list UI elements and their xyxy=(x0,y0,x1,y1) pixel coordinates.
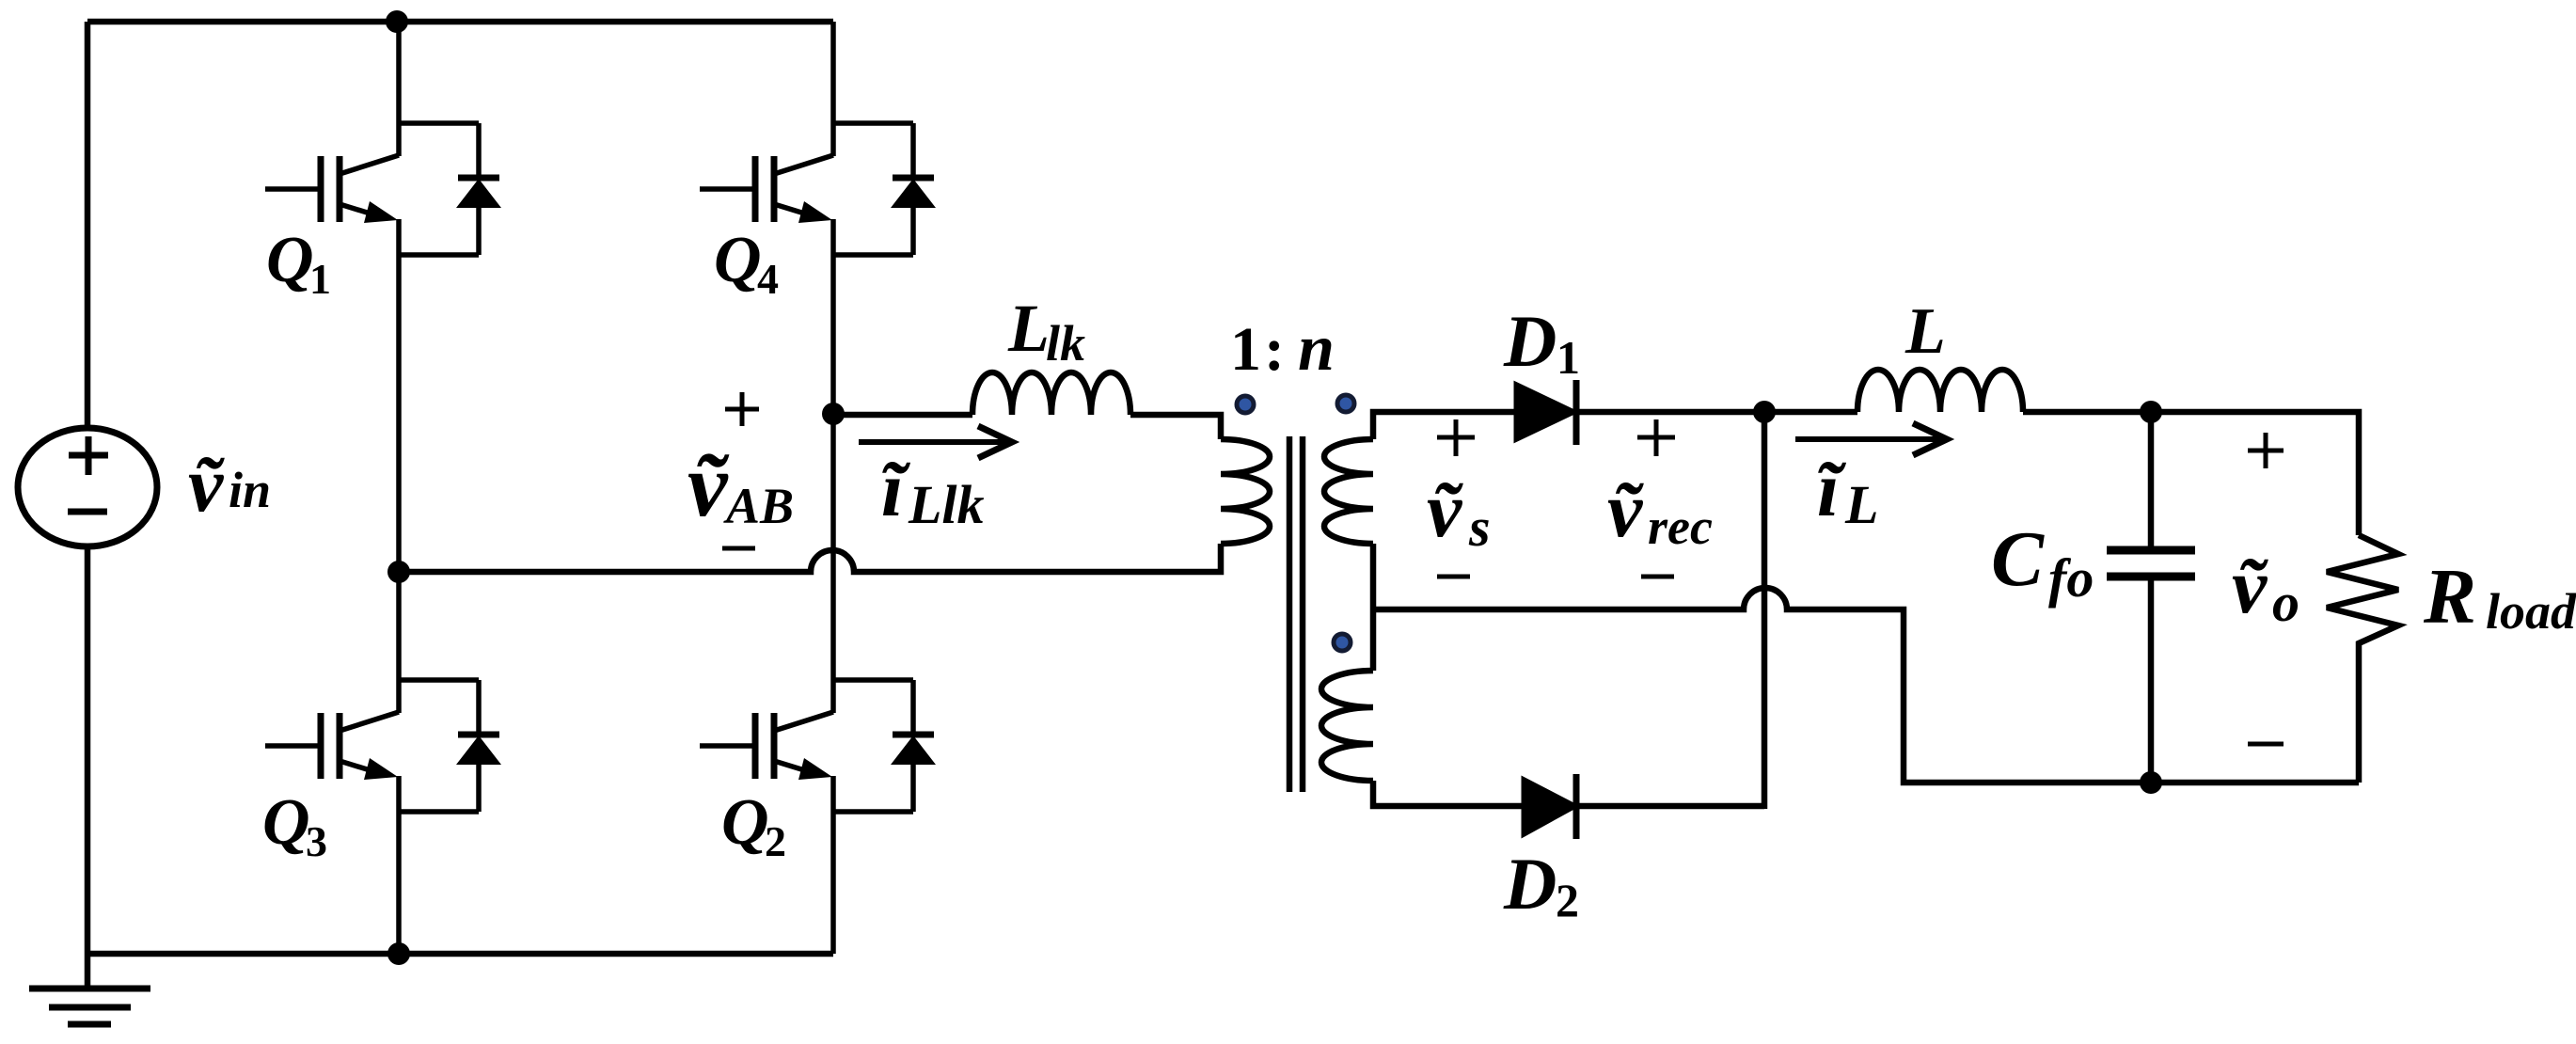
junction cap top xyxy=(2140,401,2162,423)
svg-text:2: 2 xyxy=(765,817,786,865)
secondary top winding xyxy=(1324,439,1373,544)
ground xyxy=(29,989,150,1024)
junction cap bottom xyxy=(2140,771,2162,794)
svg-text::: : xyxy=(1264,315,1285,384)
arrow iL xyxy=(1795,436,1943,442)
transistor Q1 xyxy=(265,22,501,572)
arrow iLlk xyxy=(859,439,1008,445)
inductor L xyxy=(1857,370,2023,412)
wire D1 to node xyxy=(1579,409,1857,416)
svg-text:lk: lk xyxy=(1046,315,1085,372)
svg-text:load: load xyxy=(2486,583,2576,640)
svg-text:3: 3 xyxy=(306,817,327,865)
wire left rail lower xyxy=(85,546,91,987)
wire center tap to output bottom with hop xyxy=(1373,588,2359,783)
svg-text:ṽ: ṽ xyxy=(687,435,730,535)
label minus under vAB xyxy=(722,546,755,551)
node A wire to primary bottom with hop xyxy=(399,544,1221,572)
svg-text:1: 1 xyxy=(1557,331,1580,384)
secondary bottom polarity dot xyxy=(1334,634,1351,651)
wire D2 to vertical xyxy=(1577,803,1764,810)
label vo plus xyxy=(2248,433,2284,468)
transistor Q4 xyxy=(700,22,936,414)
svg-text:ṽ: ṽ xyxy=(188,441,225,529)
capacitor Cfo xyxy=(2148,412,2155,550)
node B label plus xyxy=(725,392,759,426)
transistor Q2 xyxy=(700,414,936,954)
svg-text:1: 1 xyxy=(309,255,331,303)
svg-text:4: 4 xyxy=(757,255,779,303)
wire node B to Llk xyxy=(833,412,972,419)
primary polarity dot xyxy=(1237,396,1254,413)
svg-text:AB: AB xyxy=(723,478,794,534)
transformer primary winding xyxy=(1221,439,1270,544)
svg-text:Q: Q xyxy=(262,786,310,859)
wire secondary top stub up xyxy=(1373,412,1514,439)
svg-text:fo: fo xyxy=(2048,547,2094,609)
secondary bottom winding xyxy=(1321,671,1373,781)
svg-text:Q: Q xyxy=(266,224,314,296)
svg-text:L: L xyxy=(1844,474,1878,535)
svg-text:ṽ: ṽ xyxy=(2232,543,2268,630)
svg-text:s: s xyxy=(1468,497,1491,558)
wire secondary center tap vertical xyxy=(1370,544,1377,671)
junction node A xyxy=(387,561,410,583)
diode D2 xyxy=(1523,778,1577,836)
svg-text:Llk: Llk xyxy=(908,474,985,535)
svg-text:n: n xyxy=(1298,312,1335,385)
inductor Llk xyxy=(972,372,1130,415)
label vs plus xyxy=(1437,419,1475,456)
svg-text:2: 2 xyxy=(1556,874,1579,926)
svg-text:C: C xyxy=(1991,515,2045,603)
wire Llk to primary top xyxy=(1130,415,1221,439)
svg-text:Q: Q xyxy=(721,786,769,859)
label vrec plus xyxy=(1637,419,1675,456)
junction node B xyxy=(822,403,845,425)
diode D1 xyxy=(1515,383,1576,441)
wire L to resistor top xyxy=(2023,412,2359,535)
svg-text:Q: Q xyxy=(714,224,762,296)
svg-text:R: R xyxy=(2423,553,2476,641)
junction rectifier output xyxy=(1753,401,1776,423)
wire rectifier vertical xyxy=(1762,412,1768,809)
svg-text:ṽ: ṽ xyxy=(1427,467,1463,554)
wire secondary bottom stub xyxy=(1373,781,1523,806)
transistor Q3 xyxy=(265,572,501,954)
wire bottom rail xyxy=(87,951,833,957)
transformer core xyxy=(1287,436,1293,792)
voltage source vin xyxy=(18,428,157,546)
svg-text:D: D xyxy=(1503,843,1557,925)
svg-text:rec: rec xyxy=(1648,498,1713,555)
svg-text:L: L xyxy=(1904,295,1946,368)
svg-text:in: in xyxy=(229,462,271,518)
svg-text:L: L xyxy=(1007,291,1050,366)
svg-text:o: o xyxy=(2272,572,2299,633)
wire top rail xyxy=(87,19,833,25)
junction node bottom rail xyxy=(387,942,410,965)
junction node top rail xyxy=(386,10,408,33)
resistor Rload xyxy=(2327,535,2398,783)
svg-text:D: D xyxy=(1503,300,1557,382)
svg-text:ṽ: ṽ xyxy=(1607,467,1644,554)
wire left rail upper xyxy=(85,22,91,429)
svg-text:1: 1 xyxy=(1230,315,1261,384)
secondary top polarity dot xyxy=(1337,395,1354,412)
